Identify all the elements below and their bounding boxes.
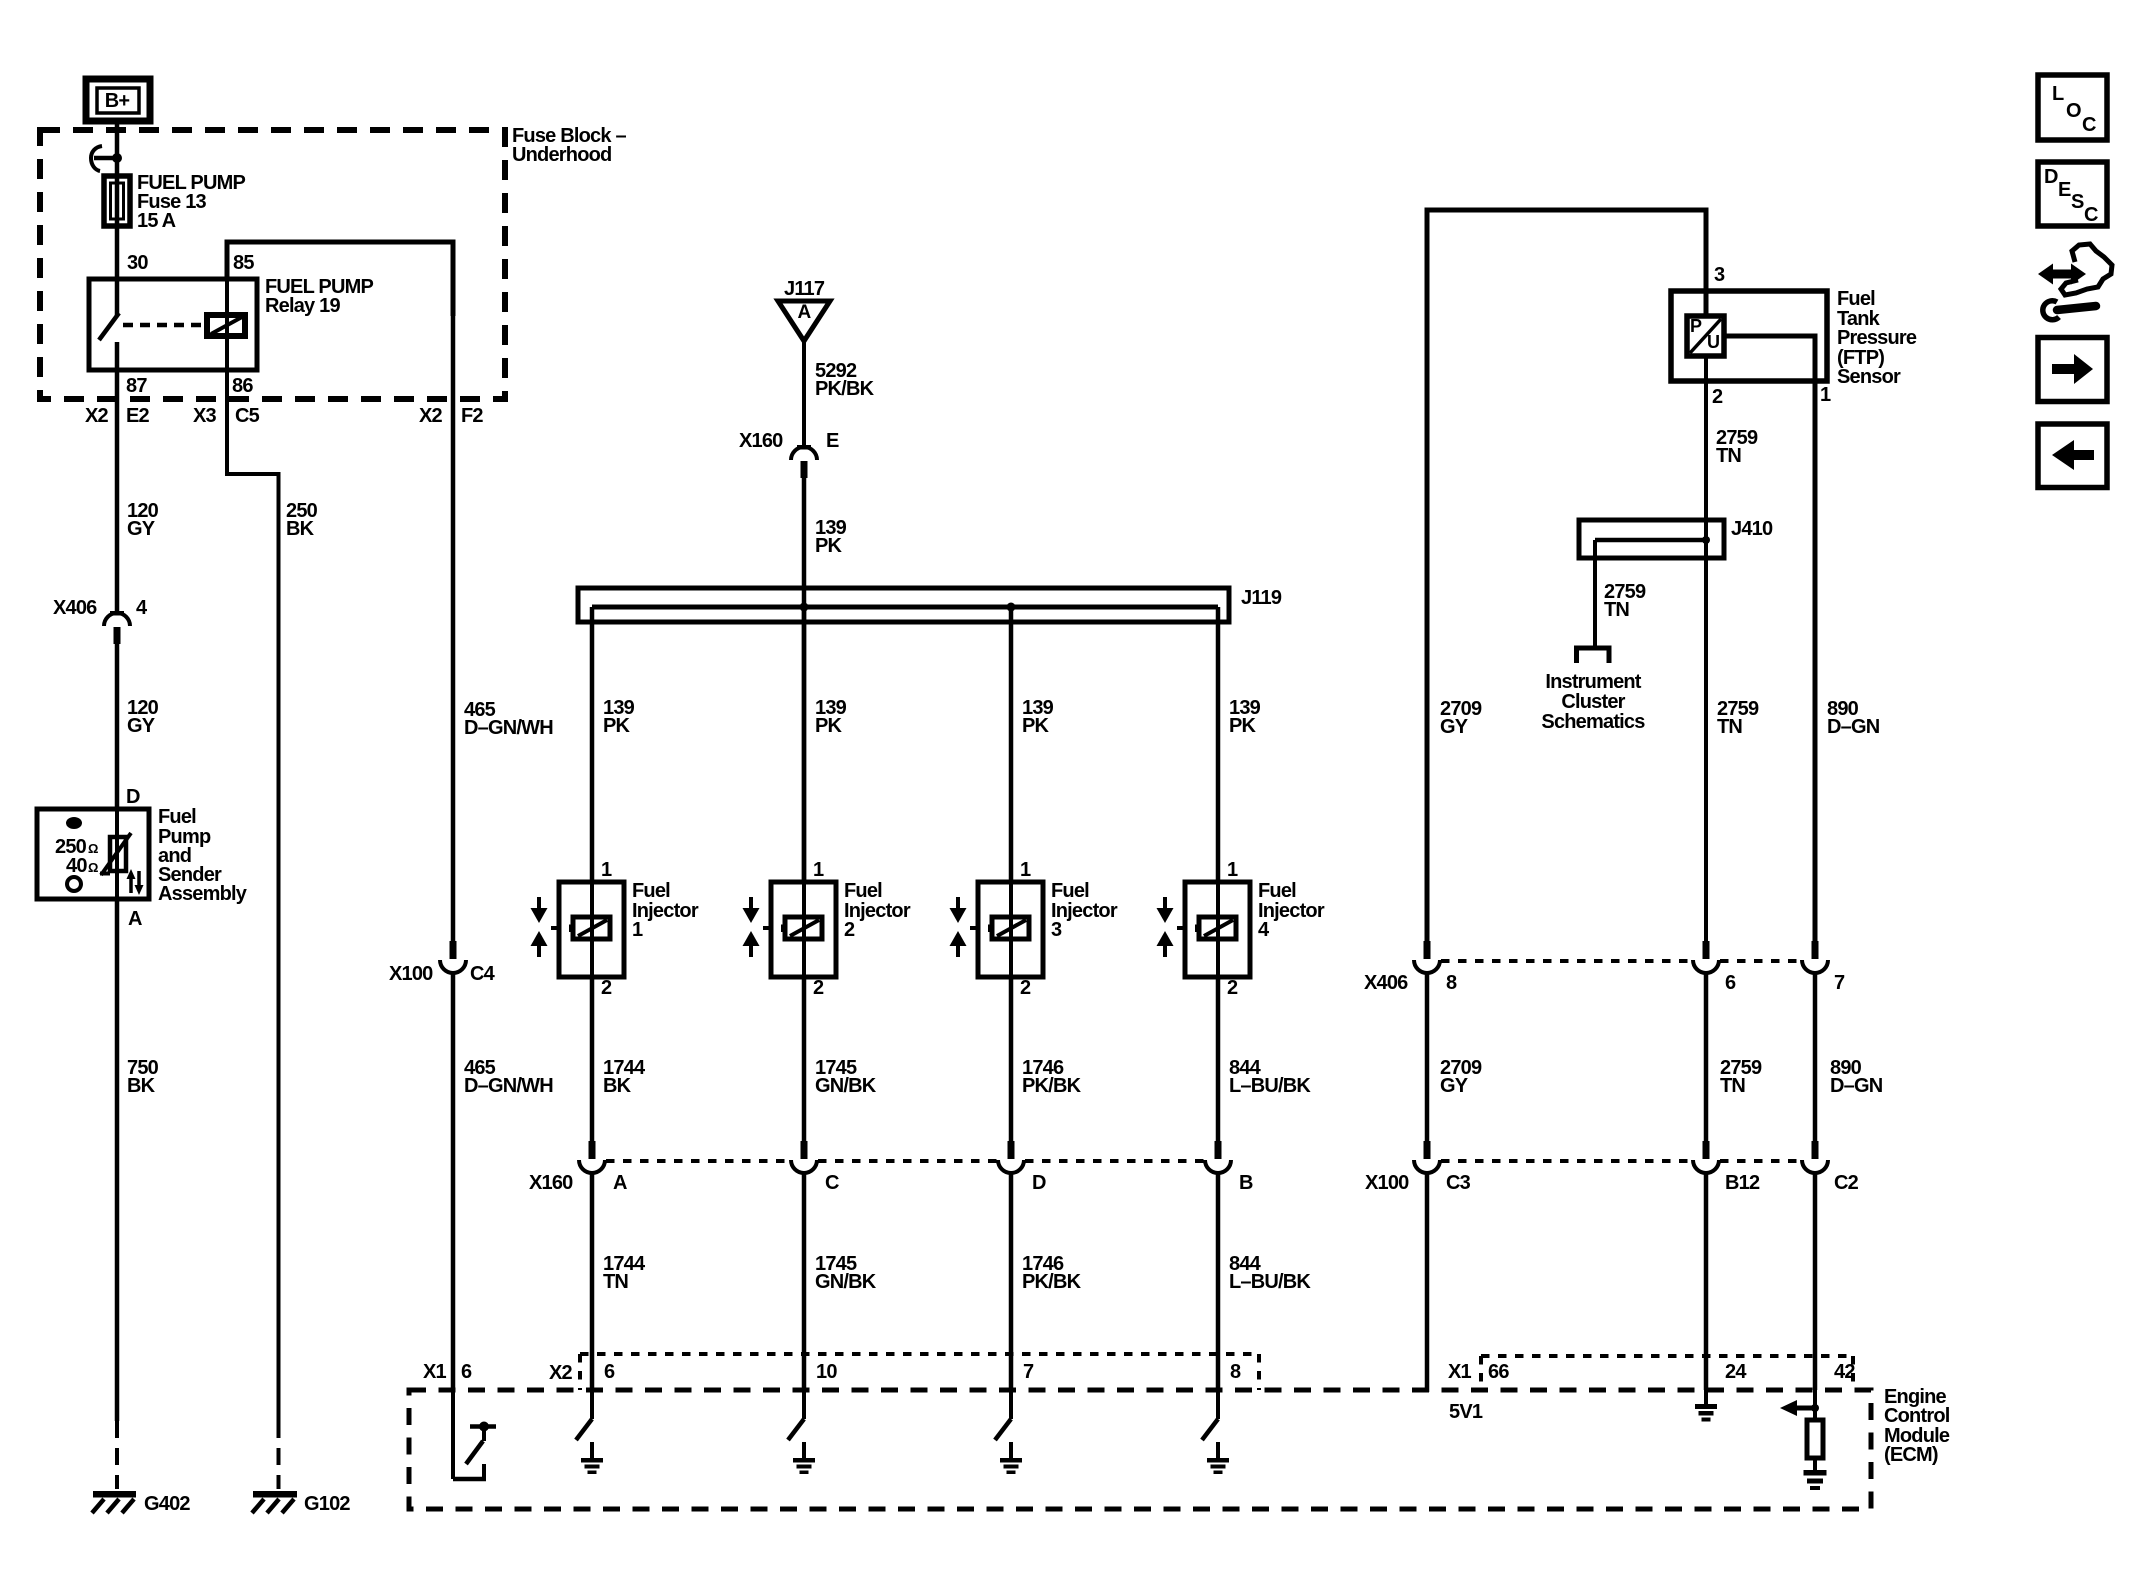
wire 139 PK to injector 4: [1216, 607, 1221, 882]
svg-text:L–BU/BK: L–BU/BK: [1229, 1075, 1311, 1097]
FTP sensor output wire pin 1 path: [1724, 336, 1815, 941]
relay switch blade: [99, 313, 119, 340]
svg-text:O: O: [2066, 100, 2081, 122]
wire B+ down to relay switch: [115, 118, 120, 316]
DESC navigation icon: [2038, 162, 2107, 226]
relay actuation dashed link: [123, 323, 204, 328]
svg-text:J119: J119: [1241, 587, 1282, 609]
fuse FUEL PUMP Fuse 13 15 A: [104, 172, 245, 232]
svg-text:L–BU/BK: L–BU/BK: [1229, 1271, 1311, 1293]
svg-text:1: 1: [813, 859, 824, 881]
svg-text:7: 7: [1834, 972, 1845, 994]
svg-text:2: 2: [1020, 977, 1031, 999]
svg-text:(ECM): (ECM): [1884, 1444, 1938, 1466]
svg-text:PK: PK: [1022, 715, 1050, 737]
svg-text:BK: BK: [603, 1075, 632, 1097]
connector X160 pin E: [739, 430, 839, 478]
fuel pump and sender assembly box: [37, 806, 248, 905]
svg-text:Pressure: Pressure: [1837, 327, 1917, 349]
wire 1745 GN/BK to ECM: [802, 1172, 807, 1390]
svg-text:2: 2: [1227, 977, 1238, 999]
connector label X2 F2: [419, 405, 483, 427]
svg-text:Ω: Ω: [88, 841, 98, 856]
svg-text:1: 1: [1227, 859, 1238, 881]
svg-text:X2: X2: [419, 405, 443, 427]
svg-text:8: 8: [1446, 972, 1457, 994]
svg-text:TN: TN: [1720, 1075, 1745, 1097]
wire label 139 PK (injector 3): [1022, 697, 1054, 737]
wire label 139 PK (injector 4): [1229, 697, 1261, 737]
svg-text:GY: GY: [127, 518, 156, 540]
svg-text:Instrument: Instrument: [1545, 671, 1641, 693]
svg-text:TN: TN: [1716, 445, 1741, 467]
svg-text:C: C: [2082, 114, 2096, 136]
wire 2759 TN middle segment: [1704, 972, 1709, 1141]
splice J410: [1579, 518, 1773, 558]
ECM X1 right connector labels: [1448, 1361, 1509, 1383]
wire 139 PK to injector 1: [590, 607, 595, 882]
svg-text:2: 2: [1712, 386, 1723, 408]
fuel pump relay 19 box: [89, 276, 373, 370]
wire label 2709 GY (upper): [1440, 698, 1482, 738]
svg-text:85: 85: [233, 252, 254, 274]
svg-text:86: 86: [232, 375, 253, 397]
svg-text:G102: G102: [304, 1493, 350, 1515]
instrument cluster schematics label: [1541, 671, 1645, 733]
svg-text:C: C: [825, 1172, 839, 1194]
wire label 1745 GN/BK: [815, 1057, 877, 1097]
ECM injector 3 driver switch: [995, 1390, 1011, 1440]
svg-text:TN: TN: [603, 1271, 628, 1293]
svg-text:24: 24: [1725, 1361, 1747, 1383]
wire through pump box: [115, 809, 119, 899]
svg-text:G402: G402: [144, 1493, 190, 1515]
injector 1 valve symbol: [531, 897, 548, 957]
sender value 250 ohm: [55, 836, 98, 858]
svg-text:5V1: 5V1: [1449, 1401, 1483, 1423]
svg-text:TN: TN: [1604, 599, 1629, 621]
svg-text:3: 3: [1714, 264, 1725, 286]
svg-text:PK/BK: PK/BK: [1022, 1075, 1082, 1097]
injector 3 valve symbol: [950, 897, 967, 957]
wire 139 PK feed: [802, 478, 807, 882]
svg-text:4: 4: [136, 597, 148, 619]
svg-text:E: E: [826, 430, 839, 452]
svg-text:X406: X406: [53, 597, 97, 619]
ECM fuel pump driver circuit at X1-6: [453, 1390, 496, 1479]
svg-text:A: A: [613, 1172, 627, 1194]
svg-text:X160: X160: [529, 1172, 573, 1194]
wire label 465 D-GN/WH (upper): [464, 699, 553, 739]
svg-text:C5: C5: [235, 405, 260, 427]
wire label 2759 TN (branch): [1604, 581, 1646, 621]
svg-text:Fuel: Fuel: [1258, 880, 1296, 902]
svg-text:B12: B12: [1725, 1172, 1760, 1194]
injector 4 valve symbol: [1157, 897, 1174, 957]
svg-text:PK: PK: [815, 715, 843, 737]
connector X160 pin A: [579, 1141, 627, 1194]
svg-text:6: 6: [604, 1361, 615, 1383]
svg-text:B+: B+: [105, 90, 130, 112]
wire label 120 GY (lower): [127, 697, 159, 737]
FTP sensor P/U transducer element: [1687, 316, 1724, 356]
ECM X1 connector fine-dash box (right): [1481, 1356, 1853, 1390]
wire label 1746 PK/BK: [1022, 1057, 1082, 1097]
wire 120 GY lower segment: [115, 644, 120, 809]
ECM injector 2 driver ground: [793, 1442, 815, 1474]
svg-text:4: 4: [1258, 919, 1270, 941]
svg-text:D–GN: D–GN: [1830, 1075, 1883, 1097]
wire 1745 GN/BK from injector 2: [802, 977, 807, 1141]
wire 2759 TN to ECM pin 24: [1704, 1172, 1709, 1390]
wire 844 L–BU/BK to ECM: [1216, 1172, 1221, 1390]
svg-text:8: 8: [1230, 1361, 1241, 1383]
engine control module dashed box: [409, 1390, 1871, 1509]
splice pack J117 triangle A: [778, 278, 830, 341]
svg-text:42: 42: [1834, 1361, 1855, 1383]
svg-text:X100: X100: [389, 963, 433, 985]
svg-text:40: 40: [66, 855, 87, 877]
svg-text:GN/BK: GN/BK: [815, 1271, 877, 1293]
wire label 5292 PK/BK: [815, 360, 875, 400]
svg-text:PK: PK: [603, 715, 631, 737]
back arrow icon: [2038, 424, 2107, 488]
svg-text:A: A: [128, 908, 142, 930]
svg-text:GY: GY: [1440, 716, 1469, 738]
wire 1744 TN to ECM: [590, 1172, 595, 1390]
svg-text:Ω: Ω: [88, 860, 98, 875]
svg-text:C3: C3: [1446, 1172, 1471, 1194]
svg-text:1: 1: [632, 919, 643, 941]
fuel pump motor arrows: [127, 869, 144, 895]
fuel tank pressure FTP sensor box: [1671, 288, 1917, 388]
sender empty-stop circle: [67, 877, 81, 891]
svg-text:D–GN/WH: D–GN/WH: [464, 717, 553, 739]
wire 890 D-GN middle segment: [1813, 972, 1818, 1141]
connector X160 pin B: [1205, 1141, 1253, 1194]
wire 1746 PK/BK to ECM: [1009, 1172, 1014, 1390]
ECM label: [1884, 1386, 1950, 1466]
ECM pull-up resistor on pin 42: [1807, 1420, 1823, 1458]
svg-text:BK: BK: [127, 1075, 156, 1097]
svg-text:6: 6: [461, 1361, 472, 1383]
svg-text:X3: X3: [193, 405, 217, 427]
svg-text:S: S: [2071, 191, 2084, 213]
ECM injector 4 driver switch: [1202, 1390, 1218, 1440]
relay coil: [207, 315, 245, 336]
connector X406 pin 8: [1414, 941, 1457, 994]
wire label 2759 TN (upper): [1717, 698, 1759, 738]
fuel injector 4: [1177, 880, 1325, 977]
svg-text:PK: PK: [1229, 715, 1257, 737]
svg-text:A: A: [798, 302, 812, 323]
svg-text:30: 30: [127, 252, 148, 274]
wire 465 D-GN/WH upper: [451, 316, 456, 941]
wire label 2759 TN (lower): [1720, 1057, 1762, 1097]
splice pack J119: [578, 587, 1282, 622]
fuel injector 1: [551, 880, 699, 977]
wire 5292 PK/BK: [802, 341, 806, 446]
svg-text:X406: X406: [1364, 972, 1408, 994]
connector X160 pin C: [791, 1141, 839, 1194]
svg-text:Fuel: Fuel: [1837, 288, 1875, 310]
svg-text:Fuel: Fuel: [1051, 880, 1089, 902]
svg-text:Cluster: Cluster: [1561, 691, 1625, 713]
wire label 1746 PK/BK (lower): [1022, 1253, 1082, 1293]
ECM sensor ground for pin 24: [1695, 1390, 1717, 1422]
wire 139 PK to injector 2: [802, 607, 807, 882]
wire label 890 D-GN (lower): [1830, 1057, 1883, 1097]
wire 2759 TN branch to instrument cluster: [1593, 540, 1597, 648]
svg-text:D: D: [126, 786, 140, 808]
wire label 844 L–BU/BK (lower): [1229, 1253, 1311, 1293]
fuel injector 2: [763, 880, 911, 977]
connector label X2 E2: [85, 405, 150, 427]
svg-text:E: E: [2058, 179, 2071, 201]
svg-text:L: L: [2052, 83, 2064, 105]
connector X100 pin B12: [1693, 1141, 1760, 1194]
diagnostic tool icon (double arrow, part outline, wrench): [2038, 244, 2112, 320]
svg-text:1: 1: [1020, 859, 1031, 881]
wire 2709 GY top feed horizontal: [1427, 210, 1706, 941]
injector 2 valve symbol: [743, 897, 760, 957]
wire 1746 PK/BK from injector 3: [1009, 977, 1014, 1141]
relay coil through-wire 85 to 86: [225, 242, 229, 372]
svg-text:E2: E2: [126, 405, 150, 427]
wire 465 D-GN/WH lower: [451, 972, 456, 1390]
connector label X3 C5: [193, 405, 260, 427]
ECM injector 4 driver ground: [1207, 1442, 1229, 1474]
svg-text:PK/BK: PK/BK: [1022, 1271, 1082, 1293]
wire 750 BK dashed tail: [115, 1421, 119, 1489]
fuse block label: [512, 125, 626, 166]
wire label 2709 GY (lower): [1440, 1057, 1482, 1097]
wire 890 D-GN to ECM pin 42: [1813, 1172, 1818, 1390]
svg-text:2: 2: [813, 977, 824, 999]
svg-text:7: 7: [1023, 1361, 1034, 1383]
LOC navigation icon: [2038, 75, 2107, 140]
svg-text:J117: J117: [784, 278, 825, 300]
svg-text:Fuel: Fuel: [632, 880, 670, 902]
wire 844 L–BU/BK from injector 4: [1216, 977, 1221, 1141]
wire 2759 TN from sensor pin 2: [1704, 356, 1708, 941]
connector X406 pin 4: [53, 597, 148, 644]
wire 87 down to fuel pump (120 GY): [115, 342, 120, 612]
ECM injector 1 driver switch: [576, 1390, 592, 1440]
relay feed wire 85 up and over to F2: [227, 242, 453, 316]
wire 2709 GY to ECM pin 66: [1425, 1172, 1430, 1392]
wire label 1744 TN (lower): [603, 1253, 646, 1293]
ECM injector 3 driver ground: [1000, 1442, 1022, 1474]
svg-text:Fuel: Fuel: [844, 880, 882, 902]
svg-text:1: 1: [1820, 384, 1831, 406]
X406 right inter-connector dashed link: [1441, 959, 1801, 963]
svg-text:Relay 19: Relay 19: [265, 295, 340, 317]
svg-text:X160: X160: [739, 430, 783, 452]
svg-text:GN/BK: GN/BK: [815, 1075, 877, 1097]
svg-text:66: 66: [1488, 1361, 1509, 1383]
connector X160 pin D: [998, 1141, 1046, 1194]
connector X100 pin C3: [1414, 1141, 1471, 1194]
wire label 890 D-GN (upper): [1827, 698, 1880, 738]
svg-text:B: B: [1239, 1172, 1253, 1194]
svg-text:Assembly: Assembly: [158, 883, 248, 905]
ECM X2 connector fine-dash box: [580, 1354, 1259, 1390]
svg-text:GY: GY: [127, 715, 156, 737]
wire label 1745 GN/BK (lower): [815, 1253, 877, 1293]
wire label 139 PK (feed): [815, 517, 847, 557]
svg-text:Schematics: Schematics: [1541, 711, 1645, 733]
ECM signal arrow at pin 42: [1780, 1390, 1819, 1420]
svg-text:2: 2: [844, 919, 855, 941]
svg-text:U: U: [1707, 332, 1719, 352]
svg-text:D: D: [1032, 1172, 1046, 1194]
svg-text:10: 10: [816, 1361, 837, 1383]
svg-text:C4: C4: [470, 963, 496, 985]
wire label 844 L–BU/BK: [1229, 1057, 1311, 1097]
svg-text:C2: C2: [1834, 1172, 1859, 1194]
connector X406 pin 6: [1693, 941, 1736, 994]
ground G402: [92, 1491, 190, 1515]
wire 250 BK dashed tail: [277, 1421, 281, 1489]
svg-text:Sensor: Sensor: [1837, 366, 1901, 388]
ECM X1 pin 6 label (left): [423, 1361, 472, 1383]
power feed B+ terminal: [86, 79, 150, 121]
svg-text:Control: Control: [1884, 1405, 1950, 1427]
svg-text:X1: X1: [1448, 1361, 1472, 1383]
svg-text:3: 3: [1051, 919, 1062, 941]
wire label 139 PK (injector 1): [603, 697, 635, 737]
wire label 250 BK: [286, 500, 318, 540]
svg-text:1: 1: [601, 859, 612, 881]
svg-text:2: 2: [601, 977, 612, 999]
connector X406 pin 7: [1802, 941, 1845, 994]
wire 2709 GY middle segment: [1425, 972, 1430, 1141]
svg-text:PK/BK: PK/BK: [815, 378, 875, 400]
svg-text:TN: TN: [1717, 716, 1742, 738]
junction dot at injector2 feed: [800, 603, 809, 612]
svg-text:P: P: [1690, 316, 1702, 336]
svg-text:Fuel: Fuel: [158, 806, 196, 828]
svg-text:87: 87: [126, 375, 147, 397]
svg-text:F2: F2: [461, 405, 483, 427]
svg-text:C: C: [2084, 204, 2098, 226]
ECM injector 1 driver ground: [581, 1442, 603, 1474]
svg-text:PK: PK: [815, 535, 843, 557]
connector X100 pin C2: [1802, 1141, 1859, 1194]
svg-text:X2: X2: [549, 1362, 573, 1384]
fuse block underhood dashed enclosure: [40, 130, 505, 399]
wire label 139 PK (injector 2): [815, 697, 847, 737]
wire 250 BK from relay pin 86 with jog: [227, 372, 279, 1421]
svg-text:BK: BK: [286, 518, 315, 540]
wire label 120 GY (upper): [127, 500, 159, 540]
wire label 750 BK: [127, 1057, 159, 1097]
connector X100 pin C4: [389, 941, 496, 985]
svg-text:X2: X2: [85, 405, 109, 427]
svg-text:J410: J410: [1731, 518, 1773, 540]
svg-text:GY: GY: [1440, 1075, 1469, 1097]
wire label 465 D-GN/WH (lower): [464, 1057, 553, 1097]
svg-text:Underhood: Underhood: [512, 144, 611, 166]
wire label 2759 TN (under sensor): [1716, 427, 1758, 467]
ECM injector 2 driver switch: [788, 1390, 804, 1440]
svg-text:6: 6: [1725, 972, 1736, 994]
ground G102: [252, 1491, 350, 1515]
X100 right inter-connector dashed link: [1441, 1159, 1801, 1163]
wire label 1744 BK: [603, 1057, 646, 1097]
svg-text:D–GN/WH: D–GN/WH: [464, 1075, 553, 1097]
sender value 40 ohm: [66, 855, 98, 877]
fuel injector 3: [970, 880, 1118, 977]
wire 139 PK to injector 3: [1009, 607, 1014, 882]
ECM ground below resistor: [1804, 1458, 1827, 1490]
svg-text:D: D: [2044, 166, 2058, 188]
junction dot at injector3 drop: [1007, 603, 1016, 612]
svg-text:15 A: 15 A: [137, 210, 176, 232]
svg-text:X1: X1: [423, 1361, 447, 1383]
svg-text:D–GN: D–GN: [1827, 716, 1880, 738]
sender variable resistor: [100, 833, 131, 875]
wire 1744 BK from injector 1: [590, 977, 595, 1141]
X160 inter-connector dashed link: [606, 1159, 1204, 1163]
wire 750 BK down: [115, 899, 120, 1421]
sender full-stop dot: [66, 817, 82, 829]
forward arrow icon: [2038, 338, 2107, 402]
off-page connector to instrument cluster: [1577, 648, 1610, 663]
clip junction on battery feed wire: [91, 146, 122, 171]
svg-text:X100: X100: [1365, 1172, 1409, 1194]
